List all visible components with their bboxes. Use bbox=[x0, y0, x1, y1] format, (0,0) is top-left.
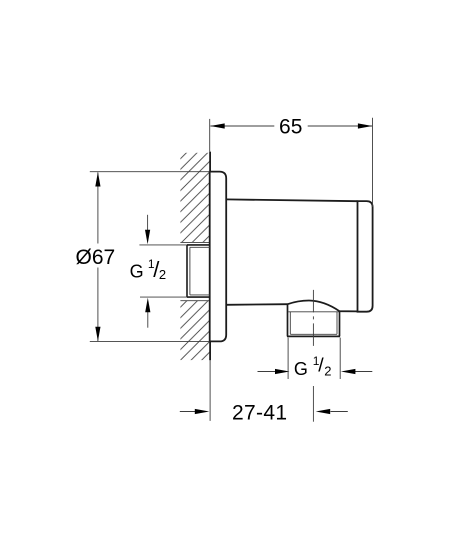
svg-text:G: G bbox=[294, 359, 308, 379]
inlet thread lower extension line bbox=[140, 296, 187, 298]
flange escutcheon outline bbox=[210, 172, 227, 342]
inlet label G1/2: lower arrowhead (up) bbox=[145, 298, 150, 313]
svg-text:65: 65 bbox=[279, 116, 302, 139]
dimension &#216;67: top extension line bbox=[90, 171, 210, 173]
dimension G1/2 outlet: left extension line bbox=[287, 338, 289, 379]
wall cutout upper boundary line bbox=[180, 241, 210, 243]
svg-text:2: 2 bbox=[159, 267, 166, 282]
dimension G1/2 outlet: left arrow shaft bbox=[258, 371, 277, 373]
inlet label G1/2: text bbox=[130, 257, 167, 282]
dimension 65: left arrowhead bbox=[210, 123, 225, 128]
wall surface line bbox=[209, 152, 211, 361]
dimension 65: dimension line bbox=[210, 125, 372, 127]
inlet label G1/2: lower arrow shaft bbox=[147, 311, 149, 328]
dimension &#216;67: dimension line bbox=[97, 172, 99, 341]
svg-text:G: G bbox=[130, 261, 144, 281]
svg-text:Ø67: Ø67 bbox=[76, 246, 116, 269]
svg-text:2: 2 bbox=[324, 363, 331, 378]
body top contour line bbox=[226, 199, 357, 201]
wall cutout lower boundary line bbox=[180, 300, 210, 302]
body bottom contour line with outlet boss curve bbox=[226, 301, 357, 312]
dimension G1/2 outlet: left arrowhead bbox=[275, 369, 290, 374]
outlet thread root lines bbox=[288, 312, 338, 335]
outlet thread outline bbox=[287, 304, 340, 336]
dimension G1/2 outlet: right arrowhead bbox=[341, 369, 356, 374]
inlet label G1/2: upper arrow shaft bbox=[147, 215, 149, 232]
wall section hatching, upper band bbox=[180, 153, 210, 243]
dimension 27-41: right arrowhead (at centerline) bbox=[316, 409, 331, 414]
dimension 27-41: left arrowhead (at wall) bbox=[195, 409, 210, 414]
inlet thread G1/2 root lines bbox=[190, 247, 210, 295]
inlet thread G1/2 outline bbox=[187, 245, 210, 297]
dimension 65: right arrowhead bbox=[358, 123, 373, 128]
dimension 27-41: right arrow shaft bbox=[331, 411, 348, 413]
outlet centerline (dash-dot) bbox=[312, 290, 314, 349]
wall section hatching, lower band bbox=[180, 301, 210, 360]
dimension 27-41: left arrow shaft bbox=[180, 411, 196, 413]
inlet label G1/2: upper arrowhead (down) bbox=[145, 230, 150, 245]
dimension &#216;67: bottom extension line bbox=[90, 340, 210, 342]
dimension G1/2 outlet: right extension line bbox=[339, 338, 341, 379]
dimension G1/2 outlet: text bbox=[294, 354, 332, 379]
outlet centerline lower extension bbox=[312, 386, 314, 422]
wall surface extension line (down to 27-41 dimension) bbox=[209, 360, 211, 421]
svg-text:27-41: 27-41 bbox=[232, 401, 287, 424]
dimension 65: right extension line bbox=[372, 118, 374, 207]
dimension &#216;67: bottom arrowhead bbox=[95, 327, 100, 342]
dimension G1/2 outlet: right arrow shaft bbox=[355, 371, 373, 373]
inlet thread upper extension line bbox=[139, 244, 187, 246]
end cap outline bbox=[358, 201, 373, 312]
dimension &#216;67: top arrowhead bbox=[95, 172, 100, 187]
dimension 65: left extension line bbox=[209, 119, 211, 152]
